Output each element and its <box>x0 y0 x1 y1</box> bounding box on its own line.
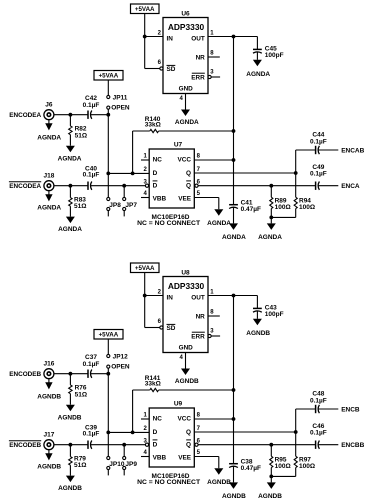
node D-line junction B <box>106 172 110 176</box>
node R79 junction <box>69 443 73 447</box>
svg-text:ENCB: ENCB <box>341 407 360 414</box>
svg-text:ENCODEB: ENCODEB <box>9 371 41 378</box>
capacitor C37 0.1µF <box>83 354 100 378</box>
svg-text:33kΩ: 33kΩ <box>145 381 161 388</box>
node R83 junction <box>69 184 73 188</box>
pin U9.3 Dbar bubble <box>145 443 148 446</box>
ground AGNDA at U6 GND pin <box>175 94 199 127</box>
svg-text:AGNDB: AGNDB <box>175 378 199 385</box>
pin U9.6 Qbar bubble <box>195 443 198 446</box>
receiver U7 MC10EP16D <box>137 142 201 228</box>
ground AGNDA at C41 <box>222 207 246 240</box>
wire C49 to net ENCA <box>318 185 338 187</box>
svg-text:Q: Q <box>186 429 191 436</box>
resistor R97 100Ω <box>294 432 315 476</box>
svg-text:ERR: ERR <box>191 75 205 82</box>
wire Q branch up to C48 <box>296 409 316 432</box>
pin U6.3 ERR bubble and stub <box>208 75 220 78</box>
wire D input line to U9 pin 2 <box>108 431 149 433</box>
pin U7.6 Qbar bubble <box>195 184 198 187</box>
svg-text:ENCAB: ENCAB <box>341 148 364 155</box>
resistor R82 51Ω <box>69 115 87 140</box>
ground AGNDB at terminators <box>258 476 282 499</box>
svg-text:AGNDA: AGNDA <box>222 234 246 241</box>
wire U9 Q to C48 branch <box>194 431 295 433</box>
node D-line junction B <box>106 431 110 435</box>
node U8 IN junction <box>143 294 147 298</box>
svg-text:100Ω: 100Ω <box>299 204 315 211</box>
svg-text:0.1µF: 0.1µF <box>310 430 327 437</box>
svg-text:JP9: JP9 <box>125 461 137 468</box>
svg-text:AGNDA: AGNDA <box>175 119 199 126</box>
svg-text:AGNDB: AGNDB <box>207 479 231 486</box>
regulator U8 ADP3330 <box>158 270 215 361</box>
node Q junction <box>294 171 298 175</box>
node VCC junction <box>232 158 236 162</box>
node R76 junction <box>69 372 73 376</box>
node jumper junction A <box>106 372 110 376</box>
capacitor C43 100pF <box>253 296 284 318</box>
wire C39 to U9 pin 3 <box>91 444 145 446</box>
node JP7 junction <box>122 184 126 188</box>
wire U6 OUT to bypass cap C45 <box>208 36 257 38</box>
wire node A down to D input and JP8 <box>107 115 109 198</box>
resistor R94 100Ω <box>294 173 315 217</box>
svg-text:AGNDB: AGNDB <box>37 464 61 471</box>
power rail +5VAA (U8 input) <box>131 263 160 273</box>
svg-text:U6: U6 <box>181 11 190 18</box>
node Qbar junction <box>269 184 273 188</box>
pin U8.8 NR stub <box>208 315 220 317</box>
svg-text:SD: SD <box>167 66 176 73</box>
ground AGNDA at R83 <box>58 206 82 233</box>
wire +5VAA rail to U6 IN and SD <box>145 14 163 69</box>
wire U8 OUT to bypass cap C43 <box>208 295 257 297</box>
svg-text:AGNDA: AGNDA <box>258 234 282 241</box>
svg-text:NC: NC <box>153 416 163 423</box>
svg-text:OPEN: OPEN <box>111 105 130 112</box>
svg-text:J18: J18 <box>43 173 54 180</box>
ground AGNDB at R76 <box>58 394 82 422</box>
node R141 drop junction <box>131 431 135 435</box>
wire terminator bus <box>271 216 295 218</box>
capacitor C42 0.1µF <box>83 95 100 119</box>
svg-text:VBB: VBB <box>153 195 167 202</box>
node jumper junction A <box>106 113 110 117</box>
capacitor C49 0.1µF <box>310 164 327 190</box>
jumper JP12 OPEN <box>107 353 130 373</box>
svg-text:U7: U7 <box>174 142 183 149</box>
svg-text:+5VAA: +5VAA <box>99 73 119 80</box>
svg-text:AGNDA: AGNDA <box>246 71 270 78</box>
node R140 junction <box>232 129 236 133</box>
wire U9 Qbar to C46 <box>198 444 316 446</box>
resistor R89 100Ω <box>270 186 291 218</box>
jumper JP8 <box>107 197 122 216</box>
svg-text:JP7: JP7 <box>125 202 137 209</box>
svg-text:D: D <box>153 170 158 177</box>
svg-text:Q: Q <box>186 441 191 448</box>
svg-text:ENCA: ENCA <box>341 183 360 190</box>
svg-text:NC = NO CONNECT: NC = NO CONNECT <box>137 220 200 227</box>
wire U7 VCC to OUT rail <box>194 159 233 161</box>
svg-text:100Ω: 100Ω <box>299 463 315 470</box>
node terminator junction <box>269 475 273 479</box>
wire U9 VEE to ground <box>194 457 219 469</box>
svg-text:VEE: VEE <box>178 454 192 461</box>
wire J17 to C39 <box>54 444 88 446</box>
regulator U6 ADP3330 <box>158 11 215 102</box>
wire +5VAA to JP12 <box>107 339 109 354</box>
svg-text:AGNDB: AGNDB <box>246 330 270 337</box>
svg-text:VCC: VCC <box>178 157 192 164</box>
svg-text:NC: NC <box>153 157 163 164</box>
power rail +5VAA (jumper JP12) <box>94 330 123 340</box>
wire C48 to net ENCB <box>318 408 338 410</box>
power rail +5VAA (jumper JP11) <box>94 71 123 81</box>
capacitor C46 0.1µF <box>310 423 327 449</box>
svg-text:C44: C44 <box>312 132 324 139</box>
svg-text:AGNDA: AGNDA <box>58 226 82 233</box>
jumper JP9 <box>123 445 138 476</box>
svg-text:OUT: OUT <box>191 36 205 43</box>
ground AGNDA at R82 <box>58 135 82 163</box>
svg-text:0.1µF: 0.1µF <box>83 431 100 438</box>
svg-text:NR: NR <box>196 54 206 61</box>
node R82 junction <box>69 113 73 117</box>
svg-text:JP12: JP12 <box>113 353 129 360</box>
pin U7.3 Dbar bubble <box>145 184 148 187</box>
wire C37 to jumper node <box>91 373 108 375</box>
svg-text:+5VAA: +5VAA <box>99 332 119 339</box>
svg-text:D: D <box>153 429 158 436</box>
svg-text:AGNDB: AGNDB <box>37 394 61 401</box>
svg-text:51Ω: 51Ω <box>75 391 87 398</box>
svg-text:OPEN: OPEN <box>111 364 130 371</box>
svg-text:J17: J17 <box>43 432 54 439</box>
svg-text:ERR: ERR <box>191 334 205 341</box>
svg-text:ADP3330: ADP3330 <box>168 281 205 291</box>
svg-text:51Ω: 51Ω <box>74 203 86 210</box>
pin U7.1 NC stub <box>141 159 149 161</box>
svg-text:+5VAA: +5VAA <box>135 6 155 13</box>
svg-text:R82: R82 <box>75 125 87 132</box>
pin U9.1 NC stub <box>141 418 149 420</box>
wire U7 Qbar to C49 <box>198 185 316 187</box>
node JP9 junction <box>122 443 126 447</box>
pin U9.4 VBB stub <box>141 456 149 458</box>
jumper JP11 OPEN <box>107 94 130 114</box>
node VCC junction <box>232 417 236 421</box>
wire C40 to U7 pin 3 <box>91 185 145 187</box>
svg-text:AGNDA: AGNDA <box>37 205 61 212</box>
svg-text:AGNDA: AGNDA <box>207 220 231 227</box>
svg-text:VCC: VCC <box>178 416 192 423</box>
svg-text:0.47µF: 0.47µF <box>241 206 261 213</box>
wire J6 to C42 <box>54 114 88 116</box>
wire U7 VEE to ground <box>194 198 219 210</box>
svg-text:SD: SD <box>167 325 176 332</box>
svg-text:0.1µF: 0.1µF <box>83 102 100 109</box>
wire OUT rail down to R141, VCC and C38 <box>233 296 235 464</box>
svg-text:NC = NO CONNECT: NC = NO CONNECT <box>137 479 200 486</box>
svg-text:33kΩ: 33kΩ <box>145 122 161 129</box>
ground AGNDA at C45 <box>246 52 270 78</box>
wire +5VAA to JP11 <box>107 80 109 95</box>
svg-text:ENCODEB: ENCODEB <box>9 442 41 449</box>
svg-text:100Ω: 100Ω <box>275 204 291 211</box>
wire J16 to C37 <box>54 373 88 375</box>
node OUT junction <box>232 35 236 39</box>
svg-text:AGNDB: AGNDB <box>58 414 82 421</box>
svg-text:ENCBB: ENCBB <box>341 442 364 449</box>
jumper JP7 <box>123 186 138 217</box>
pin U6.6 SD bubble <box>160 67 163 70</box>
ground AGNDB at C38 <box>222 466 246 499</box>
wire Q branch up to C44 <box>296 150 316 173</box>
svg-text:C48: C48 <box>312 391 324 398</box>
svg-text:U8: U8 <box>181 270 190 277</box>
capacitor C40 0.1µF <box>83 166 100 190</box>
node OUT junction <box>232 294 236 298</box>
node net ENCB <box>341 407 360 414</box>
node net ENCBB <box>341 442 364 449</box>
svg-text:ADP3330: ADP3330 <box>168 22 205 32</box>
wire OUT rail down to R140, VCC and C41 <box>233 37 235 205</box>
node U6 IN junction <box>143 35 147 39</box>
svg-text:U9: U9 <box>174 401 183 408</box>
svg-text:AGNDB: AGNDB <box>222 493 246 500</box>
svg-text:OUT: OUT <box>191 295 205 302</box>
node R140 drop junction <box>131 172 135 176</box>
svg-text:NR: NR <box>196 313 206 320</box>
wire C42 to jumper node <box>91 114 108 116</box>
svg-text:0.1µF: 0.1µF <box>310 398 327 405</box>
svg-text:J16: J16 <box>43 361 54 368</box>
capacitor C41 0.47µF <box>229 200 261 214</box>
pin U7.4 VBB stub <box>141 197 149 199</box>
svg-text:0.1µF: 0.1µF <box>310 171 327 178</box>
svg-text:D: D <box>153 441 158 448</box>
svg-text:0.1µF: 0.1µF <box>83 361 100 368</box>
svg-text:J6: J6 <box>45 102 53 109</box>
node net ENCA <box>341 183 360 190</box>
capacitor C39 0.1µF <box>83 425 100 449</box>
ground AGNDB at U9 VEE <box>207 468 231 486</box>
svg-text:100Ω: 100Ω <box>275 463 291 470</box>
node Q junction <box>294 430 298 434</box>
pin U8.3 ERR bubble and stub <box>208 334 220 337</box>
svg-text:0.47µF: 0.47µF <box>241 465 261 472</box>
ground AGNDB at C43 <box>246 311 270 337</box>
svg-text:AGNDA: AGNDA <box>58 155 82 162</box>
wire C46 to net ENCBB <box>318 444 338 446</box>
wire U9 VCC to OUT rail <box>194 418 233 420</box>
node terminator junction <box>269 216 273 220</box>
pin U8.6 SD bubble <box>160 326 163 329</box>
svg-text:Q: Q <box>186 182 191 189</box>
power rail +5VAA (U6 input) <box>131 4 160 14</box>
svg-text:0.1µF: 0.1µF <box>83 172 100 179</box>
svg-text:100pF: 100pF <box>265 52 284 59</box>
svg-text:0.1µF: 0.1µF <box>310 139 327 146</box>
resistor R95 100Ω <box>270 445 291 477</box>
connector J6 coax input with ground AGNDA <box>9 102 61 142</box>
svg-text:AGNDA: AGNDA <box>37 135 61 142</box>
connector J16 coax input with ground AGNDB <box>9 361 61 401</box>
svg-text:D: D <box>153 182 158 189</box>
svg-text:ENCODEA: ENCODEA <box>9 183 41 190</box>
receiver U9 MC10EP16D <box>137 401 201 487</box>
svg-text:AGNDB: AGNDB <box>58 485 82 492</box>
jumper JP10 <box>107 456 125 475</box>
svg-text:AGNDB: AGNDB <box>258 493 282 500</box>
svg-text:IN: IN <box>167 295 174 302</box>
capacitor C45 100pF <box>253 37 284 59</box>
wire terminator bus <box>271 475 295 477</box>
connector J17 coax input with ground AGNDB <box>9 432 62 471</box>
svg-text:ENCODEA: ENCODEA <box>9 112 41 119</box>
wire +5VAA rail to U8 IN and SD <box>145 273 163 328</box>
resistor R141 33kΩ <box>133 375 234 432</box>
svg-text:JP11: JP11 <box>113 94 128 101</box>
svg-text:JP8: JP8 <box>109 202 121 209</box>
svg-text:51Ω: 51Ω <box>74 462 86 469</box>
node net ENCAB <box>341 148 364 155</box>
svg-text:100pF: 100pF <box>265 311 284 318</box>
capacitor C38 0.47µF <box>229 459 261 473</box>
resistor R83 51Ω <box>69 186 87 210</box>
capacitor C48 0.1µF <box>310 391 327 414</box>
svg-text:VEE: VEE <box>178 195 192 202</box>
svg-text:IN: IN <box>167 36 174 43</box>
wire J18 to C40 <box>54 185 88 187</box>
wire U7 Q to C44 branch <box>194 172 295 174</box>
svg-text:GND: GND <box>179 345 194 352</box>
svg-text:R76: R76 <box>75 384 87 391</box>
ground AGNDA at terminators <box>258 217 282 240</box>
resistor R79 51Ω <box>69 445 87 469</box>
capacitor C44 0.1µF <box>310 132 327 155</box>
resistor R140 33kΩ <box>133 116 234 173</box>
wire D input line to U7 pin 2 <box>108 172 149 174</box>
svg-text:+5VAA: +5VAA <box>135 265 155 272</box>
ground AGNDA at U7 VEE <box>207 209 231 227</box>
svg-text:Q: Q <box>186 170 191 177</box>
pin U6.8 NR stub <box>208 56 220 58</box>
connector J18 coax input with ground AGNDA <box>9 173 62 212</box>
wire C44 to net ENCAB <box>318 149 338 151</box>
node R141 junction <box>232 388 236 392</box>
ground AGNDB at R79 <box>58 465 82 492</box>
node Qbar junction <box>269 443 273 447</box>
svg-text:VBB: VBB <box>153 454 167 461</box>
svg-text:GND: GND <box>179 86 194 93</box>
resistor R76 51Ω <box>69 374 87 399</box>
svg-text:51Ω: 51Ω <box>75 132 87 139</box>
wire node A down to D input and JP10 <box>107 374 109 457</box>
ground AGNDB at U8 GND pin <box>175 353 199 386</box>
